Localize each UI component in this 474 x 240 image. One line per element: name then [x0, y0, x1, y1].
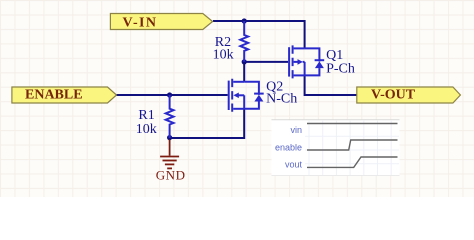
ground bar 1 [160, 156, 179, 158]
waveform panel top border [272, 119, 400, 121]
Q1 channel dashes [292, 45, 294, 78]
ground stem [169, 140, 171, 156]
Q2 body diode triangle [254, 95, 263, 102]
Q1 bulk-source connection [304, 62, 306, 76]
svg-text:R1: R1 [138, 108, 154, 123]
wire Q2 drain [243, 62, 245, 82]
wire Q1 drain to V-OUT [305, 75, 357, 95]
wire V-IN net top [213, 21, 305, 48]
wire ENABLE net [116, 94, 228, 96]
waveform trace vout [307, 157, 398, 167]
Q1 drain stub top [294, 47, 305, 49]
Q2 gate plate [228, 81, 230, 110]
Q2 body diode bracket [244, 82, 259, 109]
Q2 channel dashes [231, 79, 233, 112]
junction top R2/V-IN [242, 18, 247, 23]
ground bar 3 [165, 163, 174, 165]
svg-text:GND: GND [156, 168, 186, 183]
Q1 body diode cathode bar [315, 59, 325, 61]
port flag ENABLE [12, 87, 117, 103]
svg-text:ENABLE: ENABLE [25, 87, 83, 102]
wire GND net bottom to Q2 source [170, 109, 245, 138]
resistor R1 [166, 95, 174, 138]
ground power port GND [160, 140, 179, 169]
transistor Q1 P-channel MOSFET [289, 45, 324, 78]
Q1 gate plate [288, 47, 290, 76]
Q2 drain stub top [233, 81, 244, 83]
Q2 source stub bottom [233, 108, 244, 110]
waveform panel grid [305, 121, 399, 176]
Q1 body diode bracket [305, 48, 320, 75]
ground bar 4 [167, 167, 172, 169]
ground bar 2 [163, 160, 177, 162]
svg-text:N-Ch: N-Ch [266, 91, 297, 106]
Q1 bulk stub with P arrow [294, 61, 305, 63]
resistor R2 [240, 21, 248, 62]
Q2 bulk-source connection [243, 95, 245, 109]
Q1 source stub bottom [294, 74, 305, 76]
port flag V-IN [110, 14, 212, 30]
Q1 body diode triangle [315, 61, 324, 68]
junction R2 bottom / Q1 gate / Q2 drain [242, 59, 247, 64]
svg-text:10k: 10k [136, 122, 157, 137]
waveform inset white panel [272, 120, 400, 176]
svg-text:V-IN: V-IN [123, 16, 158, 31]
transistor Q2 N-channel MOSFET [229, 79, 264, 112]
svg-text:P-Ch: P-Ch [326, 61, 355, 76]
svg-text:vin: vin [290, 125, 302, 135]
port flag V-OUT [357, 87, 461, 103]
Q2 bulk stub with N arrow [238, 94, 244, 96]
svg-text:10k: 10k [213, 47, 234, 62]
Q2 body diode cathode bar [254, 93, 264, 95]
svg-text:V-OUT: V-OUT [371, 87, 416, 102]
wire Q1 gate net from R2 bottom [244, 61, 288, 63]
waveform panel bottom border [272, 175, 400, 177]
waveform trace vin [307, 123, 398, 125]
junction R1 bottom / GND [167, 135, 172, 140]
waveform trace enable [307, 140, 398, 150]
svg-text:enable: enable [275, 143, 302, 153]
svg-text:vout: vout [285, 159, 303, 169]
junction R1 top on ENABLE [167, 92, 172, 97]
